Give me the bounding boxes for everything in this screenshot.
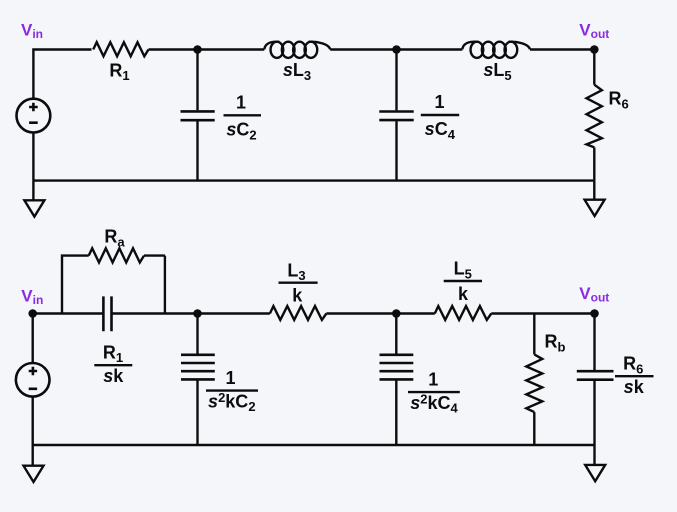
wire series cap to node 2 (bottom) [112,312,270,314]
wire L5 to Vout [530,48,594,50]
svg-text:1: 1 [434,92,444,112]
wire R1 to L3 entry [149,48,265,50]
FDNR D2 (1/s2kC2) [196,314,198,446]
svg-text:R6: R6 [609,89,629,112]
svg-text:1: 1 [428,370,438,390]
svg-text:Vout: Vout [579,284,609,305]
svg-text:s2kC4: s2kC4 [410,391,458,415]
wire Vin node down to source (bottom) [32,314,34,364]
wire source bottom to rail (top) [32,133,34,181]
svg-text:k: k [458,284,469,304]
svg-text:Rb: Rb [545,332,566,355]
resistor L3/k [270,306,327,320]
svg-text:Ra: Ra [104,227,125,250]
svg-text:L3: L3 [287,260,305,283]
svg-text:Vout: Vout [579,21,609,42]
svg-text:L5: L5 [454,259,472,282]
resistor Rb [533,314,535,355]
wire L3 to L5 [330,48,462,50]
resistor L5/k [435,306,492,320]
resistor Ra bypass loop [62,256,89,314]
capacitor C4 [395,50,397,181]
node junction 3 (bottom) [392,309,401,318]
svg-text:sL5: sL5 [483,60,511,83]
svg-text:s2kC2: s2kC2 [208,390,255,414]
wire ground rail (bottom) [33,444,595,446]
ground (bottom right) [593,445,595,465]
inductor L5 [462,42,477,50]
svg-text:Vin: Vin [21,287,43,308]
svg-text:k: k [292,285,303,305]
wire top-left from source to R1 [33,50,91,99]
svg-text:sC4: sC4 [425,119,456,142]
wire source bottom to rail (bottom) [32,397,34,445]
wire L5/k to Vout (bottom) [491,312,594,314]
svg-text:1: 1 [225,368,235,388]
svg-text:sL3: sL3 [283,60,311,83]
source V1 (top) [17,99,51,133]
wire R6 to rail [593,147,595,180]
ground (top left) [32,181,34,201]
resistor R1 [93,42,148,56]
wire L3/k to L5/k [326,312,434,314]
node junction 2 (bottom) [193,309,202,318]
capacitor C2 [196,50,198,181]
svg-text:R1: R1 [109,60,129,83]
svg-text:R6: R6 [623,354,643,377]
wire Vin node to series capacitor [33,312,104,314]
wire Vout down to R6 [593,50,595,85]
inductor L3 [264,42,279,50]
source V1 (bottom) [16,363,50,397]
ground (top right) [593,181,595,200]
FDNR D4 (1/s2kC4) [395,314,397,446]
resistor R6 [587,85,602,148]
capacitor R6/sk [593,314,595,446]
svg-text:sk: sk [624,377,645,397]
svg-text:sC2: sC2 [226,120,256,143]
node junction 1 (top) [193,45,202,54]
svg-text:1: 1 [236,93,246,113]
node junction 2 (top) [392,45,401,54]
wire ground rail (top) [33,179,594,181]
svg-text:Vin: Vin [21,21,43,42]
ground (bottom left) [32,445,34,466]
capacitor R1/sk (series) [103,296,111,331]
svg-text:sk: sk [103,366,124,386]
svg-text:R1: R1 [103,342,123,365]
